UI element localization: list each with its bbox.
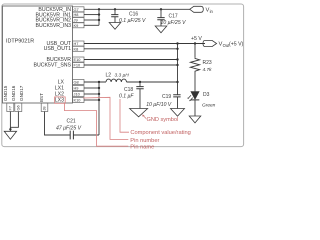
- wire +5V to R23: [194, 44, 196, 58]
- pin number H9: [73, 86, 85, 91]
- pin name BUCK5VR: [46, 57, 71, 63]
- wire BST to C21: [45, 112, 71, 136]
- wire C21 to LX bus: [73, 134, 99, 136]
- svg-text:USB_OUT1: USB_OUT1: [44, 46, 72, 52]
- pin name GND15: [3, 85, 8, 101]
- annotation Component value/rating: [130, 130, 190, 136]
- svg-text:BUCK5VT_SNS: BUCK5VT_SNS: [34, 62, 72, 68]
- svg-text:0.1 µF: 0.1 µF: [119, 94, 134, 100]
- pin number K9: [73, 23, 85, 28]
- svg-text:G8: G8: [74, 80, 79, 85]
- ground under GND pins: [4, 131, 16, 139]
- svg-text:K9: K9: [74, 23, 79, 28]
- svg-text:LX3: LX3: [55, 97, 64, 103]
- svg-text:J10: J10: [74, 92, 81, 97]
- svg-text:D3: D3: [203, 92, 210, 98]
- svg-text:G6: G6: [16, 105, 21, 110]
- capacitor C17: [157, 8, 186, 26]
- pin name BUCK5VR_IN1: [36, 12, 72, 18]
- svg-text:G7: G7: [74, 7, 79, 12]
- wire BUCK5VR_IN3: [84, 24, 99, 26]
- svg-text:J9: J9: [74, 18, 78, 23]
- inductor L2: [106, 73, 130, 83]
- svg-text:Pin name: Pin name: [130, 144, 154, 150]
- wire LX1: [84, 87, 99, 89]
- ground under C19: [171, 109, 185, 117]
- pin number G6: [15, 103, 22, 112]
- pin number J9: [73, 18, 85, 23]
- svg-text:47 µF/25 V: 47 µF/25 V: [56, 125, 82, 131]
- svg-text:L2: L2: [106, 73, 112, 79]
- wire LX: [84, 81, 106, 83]
- capacitor C19: [146, 94, 180, 109]
- wire BUCK5VR_IN2: [84, 19, 99, 21]
- annotation Pin number: [130, 138, 159, 144]
- wire LX2: [84, 93, 99, 95]
- svg-text:IDTP9021R: IDTP9021R: [6, 39, 34, 45]
- ground under C17: [155, 26, 167, 33]
- annotation Pin name: [130, 144, 154, 150]
- svg-text:H9: H9: [74, 86, 79, 91]
- svg-text:10 µF/10 V: 10 µF/10 V: [146, 102, 172, 108]
- capacitor C21: [56, 118, 82, 139]
- svg-text:+5 V: +5 V: [191, 36, 202, 42]
- pin name BUCK5VR_IN: [38, 7, 71, 13]
- node +5V: [191, 36, 202, 45]
- pin number J8: [41, 103, 48, 112]
- svg-text:F10: F10: [74, 63, 82, 68]
- svg-text:GND16: GND16: [11, 85, 16, 101]
- pin name GND17: [19, 85, 24, 101]
- svg-text:C17: C17: [169, 14, 178, 20]
- svg-text:Component value/rating: Component value/rating: [130, 130, 190, 136]
- svg-text:C18: C18: [124, 87, 133, 93]
- svg-text:C19: C19: [162, 94, 171, 100]
- wire LX3: [84, 99, 99, 101]
- svg-text:J8: J8: [42, 106, 47, 110]
- svg-text:10 µF/25 V: 10 µF/25 V: [161, 20, 187, 26]
- svg-text:0.1 µF/25 V: 0.1 µF/25 V: [119, 18, 146, 24]
- capacitor C18: [119, 81, 144, 109]
- pin name USB_OUT: [46, 41, 71, 47]
- pin name USB_OUT1: [44, 46, 72, 52]
- annotation GND symbol: [142, 114, 178, 123]
- pin name LX3 highlighted: [55, 97, 66, 104]
- capacitor C16: [111, 8, 146, 24]
- pin number J10: [73, 92, 85, 97]
- ground under C16: [109, 23, 121, 30]
- node Vin tag: [190, 6, 214, 14]
- wire BUCK5VR: [84, 59, 178, 61]
- svg-text:(+5 V): (+5 V): [229, 42, 244, 48]
- pin name LX2: [55, 91, 64, 97]
- svg-text:BUCK5VR_IN3: BUCK5VR_IN3: [36, 23, 72, 29]
- pin name LX1: [55, 85, 64, 91]
- svg-text:R23: R23: [203, 60, 212, 66]
- svg-text:GND15: GND15: [3, 85, 8, 101]
- border frame: [2, 4, 244, 147]
- pin number G8: [73, 80, 85, 85]
- wire BUCK5VT_SNS: [84, 64, 178, 66]
- node input bus junctions: [98, 8, 100, 21]
- pin name BST: [39, 93, 44, 102]
- wire L2 to bus: [127, 81, 178, 83]
- pin name BUCK5VT_SNS: [34, 62, 72, 68]
- pin number F10: [73, 63, 85, 68]
- svg-text:K8: K8: [74, 46, 79, 51]
- wire R23 to D3: [194, 72, 196, 92]
- wire USB_OUT to Vout: [84, 43, 205, 45]
- svg-text:Green: Green: [202, 103, 216, 109]
- pin name GND16: [11, 85, 16, 101]
- svg-text:Pin number: Pin number: [130, 138, 159, 144]
- pin number K10: [73, 98, 85, 103]
- annotation line pin name: [65, 103, 129, 146]
- wire BUCK5VR_IN to Vin: [84, 8, 190, 10]
- wire D3 to ground: [194, 100, 196, 116]
- pin name BUCK5VR_IN3: [36, 23, 72, 29]
- IC U1 IDTP9021R: [3, 6, 73, 103]
- LED D3: [188, 92, 216, 109]
- svg-text:F7: F7: [8, 106, 13, 111]
- pin number H7: [73, 41, 85, 46]
- annotation line pin number: [83, 97, 128, 139]
- pin number F7: [7, 103, 14, 112]
- annotation line component value: [120, 99, 129, 132]
- wire LX bus vertical: [98, 81, 100, 135]
- svg-text:4.7k: 4.7k: [203, 67, 213, 73]
- pin name LX: [58, 79, 65, 85]
- svg-text:GND17: GND17: [19, 85, 24, 101]
- pin name BUCK5VR_IN2: [36, 18, 72, 24]
- svg-text:in: in: [210, 9, 214, 14]
- wire GND pins: [9, 112, 18, 132]
- svg-text:C21: C21: [67, 118, 76, 124]
- svg-text:H7: H7: [74, 41, 79, 46]
- svg-text:BST: BST: [39, 93, 44, 102]
- node Vout tag: [203, 40, 244, 48]
- pin number G7: [73, 7, 85, 12]
- pin number K8: [73, 46, 85, 51]
- pin number H8: [73, 12, 85, 17]
- svg-text:3.3 µH: 3.3 µH: [115, 73, 130, 79]
- svg-text:GND symbol: GND symbol: [147, 117, 179, 123]
- svg-text:C16: C16: [129, 11, 138, 17]
- wire USB_OUT1: [84, 48, 178, 50]
- wire output bus vertical: [176, 42, 178, 94]
- svg-text:K10: K10: [74, 98, 82, 103]
- svg-text:E10: E10: [74, 57, 82, 62]
- svg-text:H8: H8: [74, 12, 79, 17]
- resistor R23: [190, 58, 212, 73]
- pin number E10: [73, 57, 85, 62]
- ground under D3: [189, 116, 201, 123]
- wire input bus vertical: [98, 9, 100, 25]
- wire BUCK5VR_IN1: [84, 14, 99, 16]
- ground under C18: [130, 109, 148, 117]
